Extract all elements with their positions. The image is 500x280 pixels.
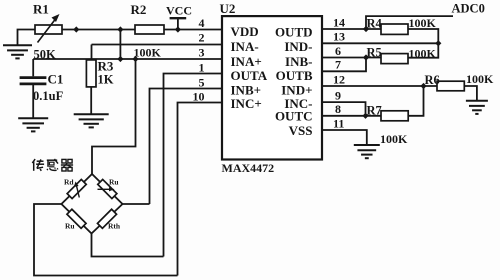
svg-text:13: 13 — [333, 30, 345, 44]
capacitor C1 top lead — [32, 59, 34, 76]
svg-text:1K: 1K — [98, 73, 114, 87]
wire vertical tap x=120 (pin4 net to pin3 net) — [119, 30, 121, 60]
resistor R2 — [135, 25, 164, 34]
wire U2 pin1 line (OUTA) down to bridge bottom — [164, 74, 223, 257]
pin label VDD — [231, 24, 259, 39]
wire U2 pin2 line (INA-) — [92, 44, 223, 46]
svg-text:5: 5 — [199, 76, 205, 90]
label Rd — [64, 178, 74, 187]
svg-text:INA-: INA- — [231, 39, 259, 54]
wire R3 bottom lead — [90, 87, 92, 114]
pin number 12 — [333, 72, 345, 86]
ground (VSS) — [354, 145, 380, 158]
node dot x135 on pin3 net — [132, 56, 138, 62]
wire U2 pin14 (OUTD) to R4 — [322, 28, 381, 30]
ground (R3) — [74, 114, 109, 127]
value 100K (R6) — [466, 72, 494, 86]
pin number 8 — [335, 102, 341, 116]
value 50K — [34, 48, 57, 62]
svg-text:0.1uF: 0.1uF — [33, 89, 64, 103]
label ADC0 — [452, 2, 485, 16]
label R6 — [425, 73, 440, 87]
svg-text:6: 6 — [335, 44, 341, 58]
pin number 5 — [199, 76, 205, 90]
svg-text:Rth: Rth — [108, 221, 121, 230]
pin number 7 — [335, 58, 341, 72]
wire R1 to R2 (pin4 net) — [62, 29, 135, 31]
wire U2 pin5 line (INB+) down to bridge right — [150, 89, 223, 205]
pin label OUTD — [275, 24, 313, 39]
svg-text:Ru: Ru — [65, 221, 75, 230]
pin label INB+ — [231, 82, 262, 97]
pin number 13 — [333, 30, 345, 44]
svg-text:Rd: Rd — [64, 178, 74, 187]
Ru arrow — [98, 187, 115, 191]
Rd arrow — [74, 182, 80, 198]
wire bridge top riser to pin3 net — [92, 59, 136, 174]
pin number 11 — [333, 116, 344, 130]
label C1 — [48, 72, 64, 87]
pin number 10 — [193, 90, 205, 104]
value 100K (R2) — [134, 46, 162, 60]
label R5 — [367, 45, 382, 59]
label R1 — [33, 2, 49, 17]
svg-text:14: 14 — [333, 15, 345, 29]
svg-text:VSS: VSS — [289, 123, 313, 138]
svg-text:INC+: INC+ — [231, 96, 262, 111]
svg-text:INB-: INB- — [285, 54, 312, 69]
pin number 3 — [199, 46, 205, 60]
node dot IND+ junction — [420, 83, 426, 89]
svg-text:Ru: Ru — [109, 178, 119, 187]
wire U2 pin13 line (IND-) — [322, 42, 438, 44]
node dot VCC junction — [175, 26, 181, 32]
pin number 6 — [335, 44, 341, 58]
pin number 4 — [199, 16, 205, 30]
svg-text:12: 12 — [333, 72, 345, 86]
resistor R6 — [437, 81, 464, 91]
svg-text:U2: U2 — [220, 1, 236, 16]
value 0.1uF — [33, 89, 64, 103]
capacitor C1 plates — [20, 78, 47, 84]
label Rth (bottom right) — [108, 221, 121, 230]
value 100K (R5) — [409, 47, 437, 61]
wire R1 left lead to ground — [18, 30, 36, 45]
label Ru (bottom left) — [65, 221, 75, 230]
svg-text:4: 4 — [199, 16, 205, 30]
svg-text:100K: 100K — [380, 132, 408, 146]
strain gauge Ru body (top-right arm) — [98, 179, 117, 198]
wire U2 pin6 line (INB-) to R5 — [322, 57, 381, 59]
svg-text:ADC0: ADC0 — [452, 2, 485, 16]
pin number 1 — [199, 61, 205, 75]
svg-text:7: 7 — [335, 58, 341, 72]
pin label OUTB — [276, 68, 313, 83]
pin label INC+ — [231, 96, 262, 111]
label R4 — [367, 17, 383, 31]
pin number 9 — [335, 89, 341, 103]
label 传感器 (sensor) — [32, 159, 73, 171]
value 100K (R4) — [409, 16, 437, 30]
wire R6 to ground — [464, 86, 477, 100]
svg-text:R2: R2 — [131, 2, 147, 17]
label VCC — [166, 4, 192, 18]
wire U2 pin8 line (OUTC) to R7 — [322, 115, 381, 117]
node dot OUTD junction — [363, 26, 369, 32]
node dot on R1 output — [73, 26, 79, 32]
pin label OUTC — [275, 109, 313, 124]
wire R7 to IND+ node — [408, 86, 423, 116]
svg-text:100K: 100K — [466, 72, 494, 86]
svg-text:R6: R6 — [425, 73, 440, 87]
svg-text:10: 10 — [193, 90, 205, 104]
svg-text:R1: R1 — [33, 2, 49, 17]
wire ADC0 net — [366, 16, 453, 29]
svg-text:100K: 100K — [409, 16, 437, 30]
wire R2 to U2 pin4 — [164, 29, 222, 31]
wire U2 pin9 (INC-) down to OUTC — [322, 102, 366, 116]
R1 wiper arrow — [38, 14, 60, 43]
svg-text:R4: R4 — [367, 17, 383, 31]
value 100K (R7) — [380, 132, 408, 146]
wire bridge arm L-B — [61, 204, 91, 234]
label MAX4472 — [222, 161, 275, 175]
svg-text:R5: R5 — [367, 45, 382, 59]
svg-text:VDD: VDD — [231, 24, 259, 39]
resistor R1 (potentiometer body) — [35, 25, 62, 34]
resistor R4 — [381, 24, 408, 34]
svg-text:3: 3 — [199, 46, 205, 60]
wire bridge arm B-R — [92, 204, 123, 234]
svg-text:11: 11 — [333, 116, 344, 130]
wire R4 to IND- node — [408, 29, 438, 43]
label R7 — [367, 103, 382, 117]
label R2 — [131, 2, 147, 17]
svg-text:C1: C1 — [48, 72, 64, 87]
ground (R1 left) — [3, 45, 32, 58]
pin label INA+ — [231, 54, 262, 69]
ground (C1) — [18, 118, 48, 131]
svg-text:100K: 100K — [134, 46, 162, 60]
svg-text:MAX4472: MAX4472 — [222, 161, 275, 175]
resistor R5 — [381, 54, 408, 64]
wire bridge bottom vertex to pin1 riser — [92, 234, 164, 257]
wire U2 pin11 (VSS) to ground — [322, 130, 367, 145]
wire bridge left vertex to outer bottom — [34, 204, 178, 276]
pin label INC- — [284, 96, 312, 111]
label U2 — [220, 1, 236, 16]
node dot OUTC junction — [362, 113, 368, 119]
wire bridge right vertex to pin5 riser — [123, 203, 150, 205]
svg-text:INA+: INA+ — [231, 54, 262, 69]
svg-text:OUTD: OUTD — [275, 24, 313, 39]
node dot INB- junction — [363, 54, 369, 60]
svg-text:R7: R7 — [367, 103, 382, 117]
svg-text:IND-: IND- — [284, 39, 312, 54]
svg-text:OUTB: OUTB — [276, 68, 313, 83]
value 1K — [98, 73, 114, 87]
svg-text:OUTA: OUTA — [231, 68, 268, 83]
pin label VSS — [289, 123, 313, 138]
pin number 2 — [199, 31, 205, 45]
capacitor C1 bottom lead — [32, 85, 34, 118]
label R3 — [98, 59, 114, 74]
power VCC symbol — [170, 18, 187, 29]
pin number 14 — [333, 15, 345, 29]
node dot IND- junction — [435, 40, 441, 46]
wire U2 pin7 (OUTB) up to INB- — [322, 58, 366, 72]
resistor Rth body (bottom-right arm) — [97, 209, 116, 228]
ground (R6) — [466, 101, 488, 114]
strain gauge Rd body (top-left arm) — [67, 179, 86, 198]
resistor R3 (vertical) — [86, 60, 96, 87]
svg-text:OUTC: OUTC — [275, 109, 313, 124]
op-amp U2 body (MAX4472) — [222, 16, 322, 159]
wire R5 to IND- node — [408, 43, 438, 57]
wire bridge arm T-R — [92, 174, 123, 204]
svg-text:R3: R3 — [98, 59, 114, 74]
wire U2 pin12 line (IND+) — [322, 85, 437, 87]
svg-text:VCC: VCC — [166, 4, 192, 18]
svg-text:9: 9 — [335, 89, 341, 103]
wire U2 pin3 line (INA+) from C1 — [33, 58, 222, 60]
svg-text:2: 2 — [199, 31, 205, 45]
pin label OUTA — [231, 68, 268, 83]
resistor Ru body (bottom-left arm) — [67, 209, 86, 228]
wire U2 pin10 line (INC+) down to outer bottom — [178, 103, 223, 276]
node dot at R2 left / x120 tap — [117, 26, 123, 32]
resistor R7 — [381, 111, 408, 121]
pin label INA- — [231, 39, 259, 54]
svg-text:1: 1 — [199, 61, 205, 75]
svg-text:8: 8 — [335, 102, 341, 116]
pin label IND+ — [281, 82, 312, 97]
pin label IND- — [284, 39, 312, 54]
node dot x120 on pin3 net — [117, 56, 123, 62]
label Ru (top right) — [109, 178, 119, 187]
pin label INB- — [285, 54, 312, 69]
wire bridge arm T-L — [61, 174, 92, 204]
wire R3 top lead — [91, 45, 93, 61]
